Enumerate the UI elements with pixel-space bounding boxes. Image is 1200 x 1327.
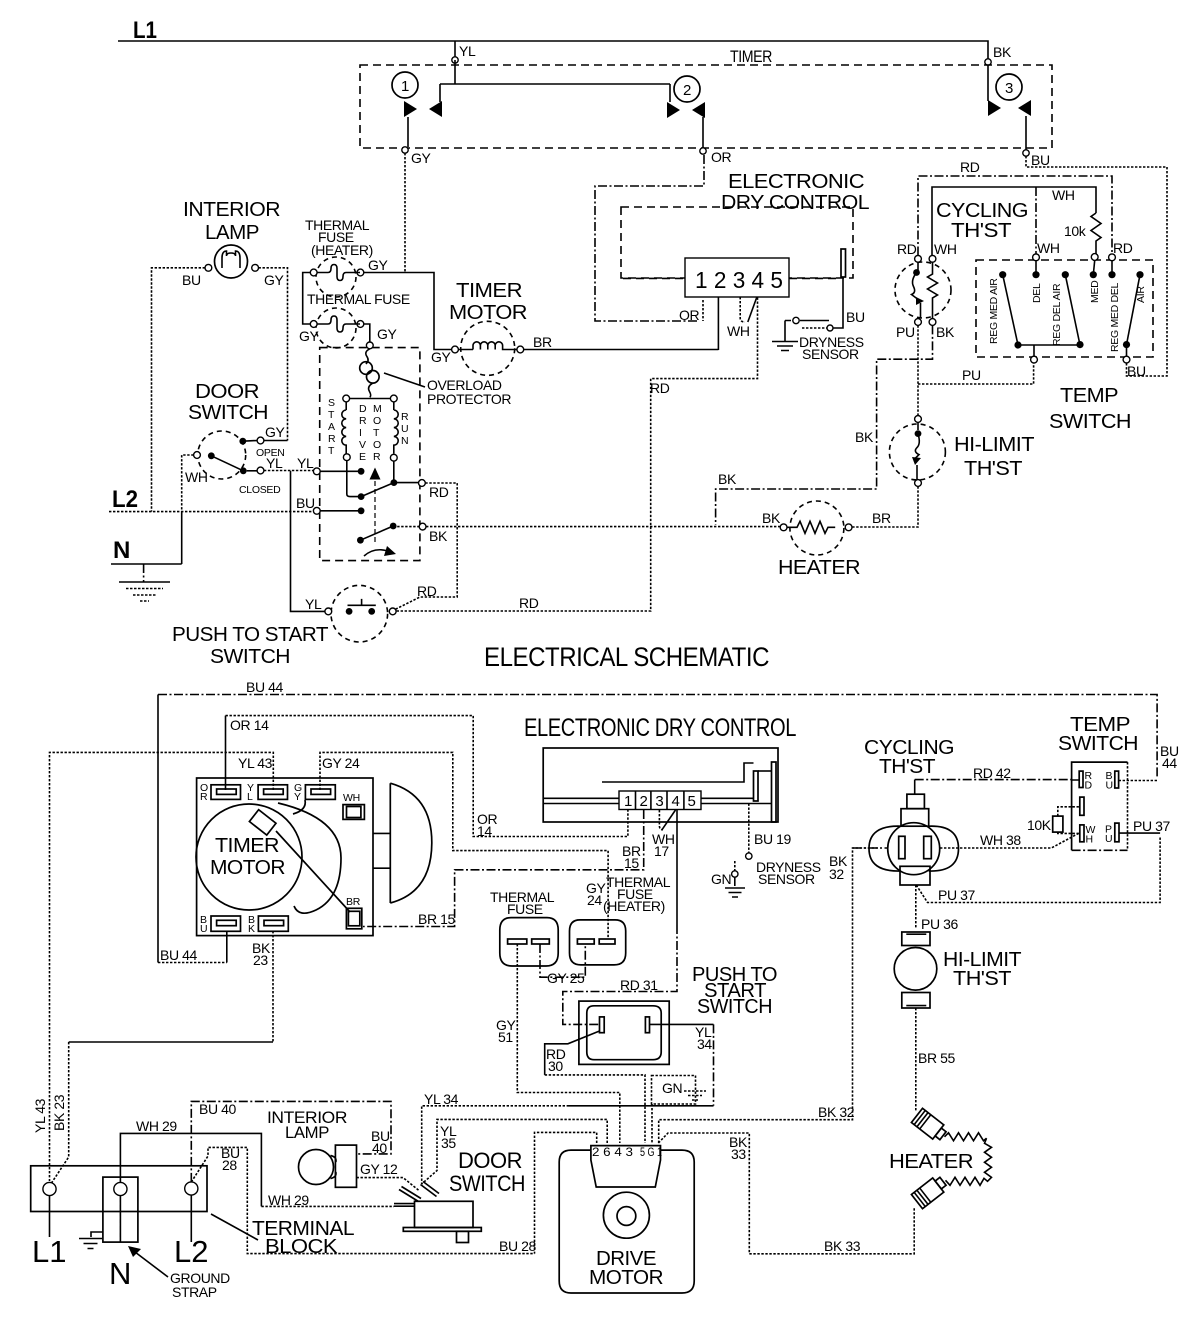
svg-text:BK 32: BK 32 [818,1104,855,1120]
svg-text:3: 3 [655,793,663,810]
svg-text:SWITCH: SWITCH [1049,411,1131,433]
svg-text:BU 44: BU 44 [160,947,198,963]
wire WH 38 [940,833,1079,848]
wire BU 44 left leg [157,695,159,963]
svg-text:23: 23 [253,952,268,968]
svg-text:BR 15: BR 15 [418,911,456,927]
svg-text:2: 2 [683,82,691,99]
svg-text:WH: WH [343,792,360,804]
svg-text:BU 40: BU 40 [199,1101,237,1117]
centrifugal arrow [370,468,381,480]
svg-text:34: 34 [697,1036,712,1052]
svg-text:TIMER: TIMER [215,835,279,857]
svg-text:2 6 4 3: 2 6 4 3 [592,1145,633,1159]
wire WH29 plate [394,1204,415,1207]
svg-text:BR: BR [533,334,552,350]
svg-text:BK: BK [762,510,781,526]
svg-text:32: 32 [829,866,844,882]
wire BU 40 [191,1101,391,1182]
svg-text:BU: BU [296,495,315,511]
wire GY 51 [517,944,620,1143]
svg-text:HEATER: HEATER [889,1151,973,1173]
svg-text:5: 5 [688,793,696,810]
svg-text:TIMER: TIMER [456,280,522,302]
wire fuse1 to fuse2 [303,273,311,325]
svg-text:SENSOR: SENSOR [758,871,815,887]
wire BU sensor [834,277,844,328]
svg-text:AIR: AIR [1135,286,1147,303]
wire RD 42 [914,780,916,795]
svg-text:PU 37: PU 37 [938,887,976,903]
svg-text:ELECTRONIC: ELECTRONIC [728,171,864,193]
svg-text:BK: BK [718,471,737,487]
svg-text:WH: WH [1052,187,1075,203]
wire lamp BU to L2 [152,268,206,512]
svg-text:RD: RD [417,583,437,599]
wire BU 19 [748,804,750,853]
wire BK32 stub into cycling [853,847,888,849]
svg-text:BR: BR [346,896,361,908]
heater top plug [911,1108,948,1143]
wire BK 33 [658,1133,914,1254]
wire YL door switch to motor [264,470,314,472]
svg-text:BR: BR [872,510,891,526]
svg-text:BU: BU [846,309,865,325]
svg-text:10k: 10k [1064,223,1087,239]
svg-text:K: K [248,923,255,935]
svg-text:(HEATER): (HEATER) [311,242,373,258]
wire GY 12 [357,1178,420,1191]
svg-text:R: R [200,791,208,803]
svg-text:ELECTRICAL SCHEMATIC: ELECTRICAL SCHEMATIC [484,642,769,672]
wire GY 24 [320,752,608,938]
svg-text:YL 43: YL 43 [238,755,273,771]
svg-text:N: N [113,537,130,564]
wire OR net to dry control pin 1 [595,155,704,321]
svg-text:30: 30 [548,1058,563,1074]
svg-text:YL: YL [459,43,476,59]
svg-text:BU 44: BU 44 [246,679,284,695]
svg-text:MOTOR: MOTOR [210,857,285,879]
wire pin2 BR stub [717,297,719,350]
svg-text:SWITCH: SWITCH [697,996,772,1018]
svg-text:L: L [247,791,253,803]
wire BU 44 top bus [158,695,1157,778]
ground strap ground symbol [79,1232,103,1249]
svg-text:HI-LIMIT: HI-LIMIT [954,434,1034,456]
svg-text:BLOCK: BLOCK [265,1236,338,1258]
temp contact REG DEL AIR [1062,271,1069,278]
svg-text:GN: GN [711,871,731,887]
wire YL drop to timer [454,41,456,57]
svg-text:PU 36: PU 36 [921,916,959,932]
wire RD cycling to temp switch [918,176,1112,256]
svg-text:PU: PU [962,367,981,383]
svg-text:TIMER: TIMER [730,47,772,66]
svg-text:CLOSED: CLOSED [239,484,281,496]
wire OR 14 [225,716,227,790]
wire fuse1 to timer motor [364,273,452,350]
svg-text:BK: BK [429,528,448,544]
wire PU 37 [916,836,1160,903]
svg-text:1: 1 [401,78,409,95]
svg-text:BU: BU [1127,363,1146,379]
svg-text:H: H [1086,834,1093,846]
temp slot middle [1080,797,1084,815]
svg-text:(HEATER): (HEATER) [603,898,665,914]
svg-text:WH: WH [934,241,957,257]
svg-text:17: 17 [654,843,669,859]
svg-text:BU: BU [182,272,201,288]
wire RD motor to push start [395,483,457,610]
svg-text:BU 19: BU 19 [754,831,792,847]
wire BR timer motor to pin2 [524,349,719,351]
svg-text:10K: 10K [1027,817,1052,833]
svg-text:RD: RD [519,595,539,611]
timer slot GY [305,785,335,800]
motor YL terminal [313,468,320,475]
wire pin4 RD net down [393,298,758,612]
svg-text:REG DEL AIR: REG DEL AIR [1051,283,1063,346]
svg-text:ELECTRONIC DRY CONTROL: ELECTRONIC DRY CONTROL [524,714,796,742]
drive motor windings (top) [346,398,394,400]
svg-text:BU: BU [1031,152,1050,168]
wire GN to motor pin G [651,1104,653,1143]
svg-text:RD: RD [960,159,980,175]
svg-text:U: U [1105,833,1112,845]
motor BK switch [390,523,397,530]
svg-text:BK: BK [855,429,874,445]
node GN + ground [732,871,738,877]
svg-text:YL 43: YL 43 [32,1098,48,1133]
temp slot RD [1079,771,1083,787]
timer slot BK [258,916,288,931]
svg-text:15: 15 [624,855,639,871]
svg-text:RD 31: RD 31 [620,977,658,993]
svg-text:L2: L2 [174,1234,208,1269]
temp contact MED [1090,271,1097,278]
svg-text:U: U [200,923,207,935]
svg-text:2: 2 [640,793,648,810]
svg-text:TH'ST: TH'ST [953,968,1011,990]
svg-text:STRAP: STRAP [172,1284,217,1300]
wire BR 15 [363,810,644,927]
svg-text:GY 25: GY 25 [547,970,585,986]
svg-text:4: 4 [672,793,680,810]
overload protector [366,349,370,364]
temp switch dashed box (top) [976,260,1153,357]
svg-text:RD: RD [1113,240,1133,256]
svg-text:TH'ST: TH'ST [951,220,1011,242]
wire WH 29 [120,1133,261,1206]
svg-text:BK: BK [936,324,955,340]
svg-text:24: 24 [587,892,602,908]
timer slot WH [343,805,364,820]
svg-text:TH'ST: TH'ST [964,458,1022,480]
motor arc arrow [364,550,391,556]
svg-text:GY: GY [411,150,431,166]
wire RD 30 [545,1031,600,1075]
drive motor dashed box (top) [320,348,420,561]
svg-text:D: D [1085,780,1093,792]
wire PU 36 [915,885,917,929]
svg-text:44: 44 [1162,755,1177,771]
connector 1 2 3 4 5 (top) [685,258,789,297]
dryness sensor plate + ground [785,321,829,342]
wire BR 55 [915,1008,917,1112]
dry control dashed box [621,207,853,278]
svg-text:LAMP: LAMP [285,1123,329,1142]
svg-text:REG MED AIR: REG MED AIR [988,278,1000,344]
svg-text:SWITCH: SWITCH [210,646,290,668]
svg-text:GY: GY [431,349,451,365]
svg-text:GY: GY [377,326,397,342]
node BK [985,59,991,65]
svg-text:DRY CONTROL: DRY CONTROL [721,192,869,214]
svg-text:OR: OR [711,149,731,165]
wire YL 43 [50,752,274,1181]
wire WH cycling to 10k/temp [932,187,1096,256]
svg-text:L1: L1 [133,17,157,44]
svg-text:RD: RD [897,241,917,257]
svg-text:N: N [109,1256,131,1291]
wire BU 28 from L2 [191,1147,534,1253]
svg-text:TEMP: TEMP [1060,385,1118,407]
temp switch terminals top [1033,254,1040,261]
svg-text:GY 12: GY 12 [360,1161,398,1177]
svg-text:RD: RD [429,484,449,500]
temp contact DEL [1032,271,1039,278]
svg-text:TH'ST: TH'ST [879,756,935,778]
timer motor component (bottom) [197,778,373,936]
wire YL 35 [422,1119,608,1184]
temp contact REG MED DEL [1108,271,1115,278]
wire WH door switch to N [182,455,194,512]
dryness sensor electrode (top) [841,249,846,277]
svg-text:RUN: RUN [401,411,409,447]
svg-text:THERMAL FUSE: THERMAL FUSE [307,291,410,307]
temp bottom bar [1014,341,1021,348]
svg-text:1 2 3 4 5: 1 2 3 4 5 [695,267,783,293]
timer slot BR [346,908,361,929]
wire WH 17 [659,810,663,830]
svg-text:L1: L1 [32,1234,66,1269]
svg-text:SWITCH: SWITCH [188,402,268,424]
ground symbol N [143,564,145,582]
svg-text:INTERIOR: INTERIOR [183,199,280,221]
svg-text:BR 55: BR 55 [918,1050,956,1066]
wire L1 bus [118,41,988,60]
svg-text:DOOR: DOOR [195,381,259,403]
svg-text:Y: Y [294,791,301,803]
svg-text:SWITCH: SWITCH [1058,733,1138,755]
svg-text:REG MED DEL: REG MED DEL [1109,282,1121,352]
temp slot WH [1080,825,1084,842]
motor BU terminal [313,507,320,514]
svg-text:GY: GY [299,328,319,344]
node BU under contact 3 [1023,150,1029,156]
svg-text:MED: MED [1089,280,1101,303]
wire PU net [918,325,1034,415]
svg-text:PU 37: PU 37 [1133,818,1171,834]
timer dashed box [360,65,1052,148]
svg-text:YL: YL [305,596,322,612]
wire pin3 WH stub [740,297,745,322]
GN box + ground [652,1076,696,1105]
svg-text:BU 28: BU 28 [499,1238,537,1254]
svg-text:BK 23: BK 23 [51,1094,67,1131]
svg-text:WH 29: WH 29 [136,1118,177,1134]
svg-text:35: 35 [441,1135,456,1151]
node YL [452,57,458,63]
svg-text:MOTOR: MOTOR [589,1267,663,1289]
svg-text:40: 40 [372,1140,387,1156]
wire BR hi-limit to heater [852,486,918,527]
resistor 10K [1053,816,1063,832]
connector 12345 (bottom) [619,791,701,810]
wire BK motor to heater [426,526,780,528]
node GY on motor box [366,342,373,349]
svg-text:OR 14: OR 14 [230,717,269,733]
pointer overload [384,373,425,387]
svg-text:5 G 1: 5 G 1 [640,1145,662,1159]
svg-text:WH 38: WH 38 [980,832,1021,848]
svg-text:14: 14 [477,823,492,839]
timer contact 3 [996,74,1022,100]
svg-text:51: 51 [498,1029,513,1045]
timer slot BU [211,916,241,931]
svg-text:OR: OR [679,307,699,323]
wire BK 23 [272,931,274,1042]
drive motor (bottom) [559,1150,694,1293]
wire RD 31 [676,810,678,925]
svg-text:PUSH TO START: PUSH TO START [172,624,328,646]
svg-text:GN: GN [662,1080,682,1096]
svg-text:L2: L2 [112,486,138,513]
temp contact AIR [1136,271,1143,278]
wire YL push start to door switch [291,471,325,612]
svg-text:FUSE: FUSE [507,901,543,917]
wire lamp GY to door switch [259,268,288,441]
resistor 10k [1091,213,1101,254]
svg-text:DOOR: DOOR [458,1148,522,1173]
svg-text:WH: WH [185,469,208,485]
svg-text:PROTECTOR: PROTECTOR [427,391,511,407]
temp contact REG MED AIR [999,271,1006,278]
heater element zigzag [945,1133,992,1186]
timer cam disc [390,783,432,903]
svg-text:WH: WH [1037,240,1060,256]
svg-text:HEATER: HEATER [778,557,860,579]
svg-text:GY 24: GY 24 [322,755,360,771]
timer slot OR [211,785,241,800]
wire BU net to temp switch [1026,156,1167,376]
timer contact 1 [392,72,418,98]
svg-text:GY: GY [265,424,285,440]
dry control box (bottom) [543,748,778,822]
svg-text:GY: GY [368,257,388,273]
svg-text:WH: WH [727,323,750,339]
svg-text:SENSOR: SENSOR [802,346,859,362]
svg-text:CYCLING: CYCLING [936,200,1028,222]
timer cam [249,810,276,835]
svg-text:GY: GY [264,272,284,288]
wire BK cycling to heater line [716,325,933,525]
svg-text:U: U [1106,780,1113,792]
wire inner bar contact1-2 [440,83,670,85]
svg-text:28: 28 [222,1157,237,1173]
svg-text:1: 1 [624,793,632,810]
wire GY from contact1 joins fuse-timer wire [404,153,406,273]
svg-text:BK 33: BK 33 [824,1238,861,1254]
wire GY 25 [540,944,585,977]
svg-text:SWITCH: SWITCH [449,1171,525,1196]
timer contact 2 [674,76,700,102]
wire BK 32 [659,848,878,1143]
svg-text:DEL: DEL [1031,283,1043,303]
motor start switch [347,461,361,497]
svg-text:3: 3 [1005,80,1013,97]
svg-text:33: 33 [731,1146,746,1162]
node OR under contact 2 [700,148,706,154]
svg-text:LAMP: LAMP [205,222,259,244]
heater bottom plug [911,1174,948,1209]
dryness sensor electrode (bottom) [754,771,759,801]
wire BU 28 (pin2) [535,1132,597,1253]
svg-text:YL: YL [266,455,283,471]
node GY under contact 1 [402,147,408,153]
wire BU44 into temp [1119,780,1158,782]
svg-text:RD: RD [650,380,670,396]
svg-text:YL 34: YL 34 [424,1091,459,1107]
wire YL 34 [650,1023,714,1025]
timer slot YL [258,785,287,800]
svg-text:RD 42: RD 42 [973,765,1011,781]
wire fuse2 to motor box junction [364,324,370,342]
svg-text:WH 29: WH 29 [268,1192,309,1208]
svg-text:PU: PU [896,324,915,340]
terminal block [31,1166,207,1212]
svg-text:BK: BK [993,44,1012,60]
svg-text:YL: YL [297,455,314,471]
